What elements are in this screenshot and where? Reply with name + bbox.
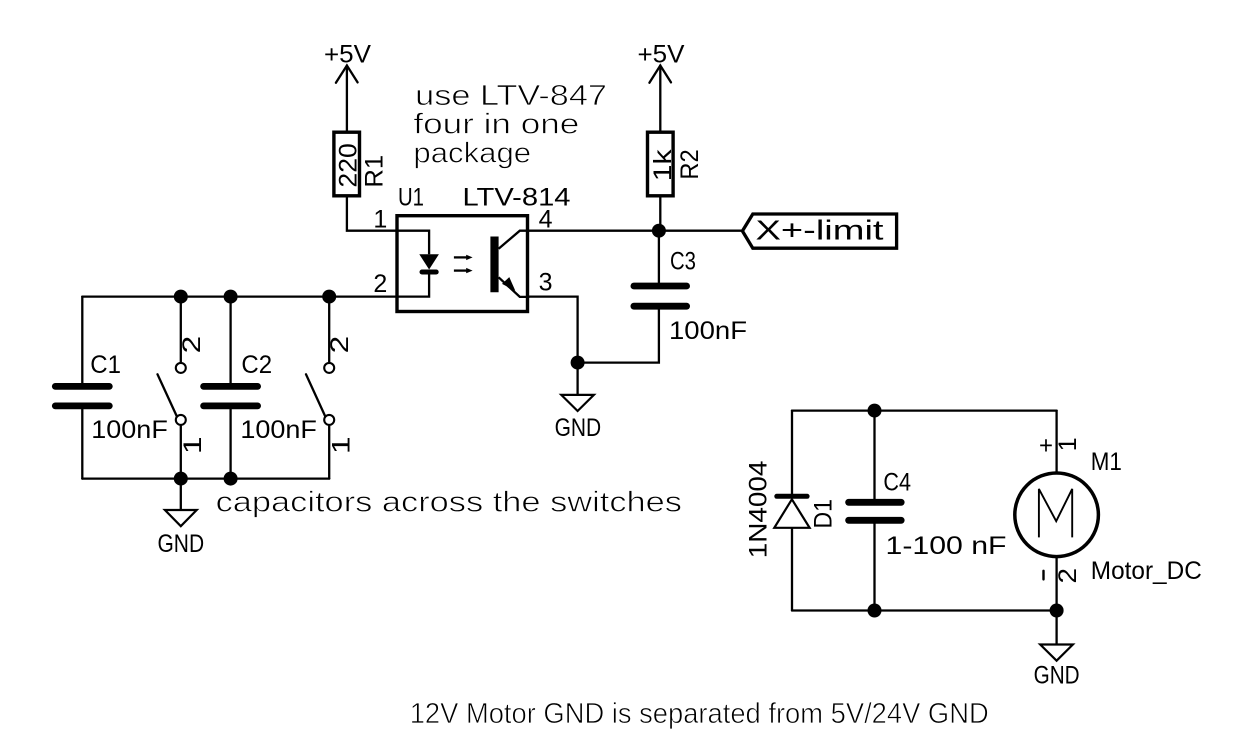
svg-text:1: 1 [179,437,207,455]
svg-text:1N4004: 1N4004 [745,460,773,558]
svg-text:100nF: 100nF [91,416,168,444]
svg-text:1: 1 [1054,437,1082,451]
svg-text:2: 2 [326,336,354,354]
svg-text:100nF: 100nF [240,416,317,444]
svg-text:C2: C2 [241,351,272,379]
svg-text:+: + [1039,432,1053,460]
svg-text:+5V: +5V [638,40,685,68]
svg-text:2: 2 [178,336,206,354]
svg-text:1-100 nF: 1-100 nF [886,532,1007,560]
svg-text:4: 4 [539,206,553,234]
svg-text:U1: U1 [398,183,424,211]
svg-text:D1: D1 [810,499,838,529]
svg-text:R1: R1 [361,155,389,188]
svg-text:M1: M1 [1091,448,1122,476]
svg-text:C4: C4 [883,468,911,496]
svg-text:1k: 1k [649,149,677,181]
svg-text:+5V: +5V [324,40,371,68]
svg-text:capacitors across the switches: capacitors across the switches [216,487,682,519]
svg-text:use LTV-847: use LTV-847 [415,80,607,112]
svg-text:100nF: 100nF [669,317,747,345]
svg-text:GND: GND [555,414,602,442]
svg-text:GND: GND [1034,662,1080,690]
svg-text:four in one: four in one [413,109,579,141]
svg-text:2: 2 [373,270,387,298]
svg-text:C1: C1 [90,351,121,379]
svg-text:X+-limit: X+-limit [756,214,884,245]
svg-text:R2: R2 [676,149,704,179]
svg-text:LTV-814: LTV-814 [463,183,571,211]
svg-text:2: 2 [1054,568,1082,584]
svg-text:1: 1 [327,437,355,455]
svg-text:12V Motor GND is separated fro: 12V Motor GND is separated from 5V/24V G… [410,698,989,730]
svg-text:C3: C3 [670,248,696,276]
svg-text:3: 3 [539,269,553,297]
svg-text:GND: GND [158,530,205,558]
svg-text:Motor_DC: Motor_DC [1091,557,1202,585]
svg-text:package: package [413,137,531,169]
svg-text:220: 220 [335,143,363,187]
svg-text:1: 1 [373,206,387,234]
